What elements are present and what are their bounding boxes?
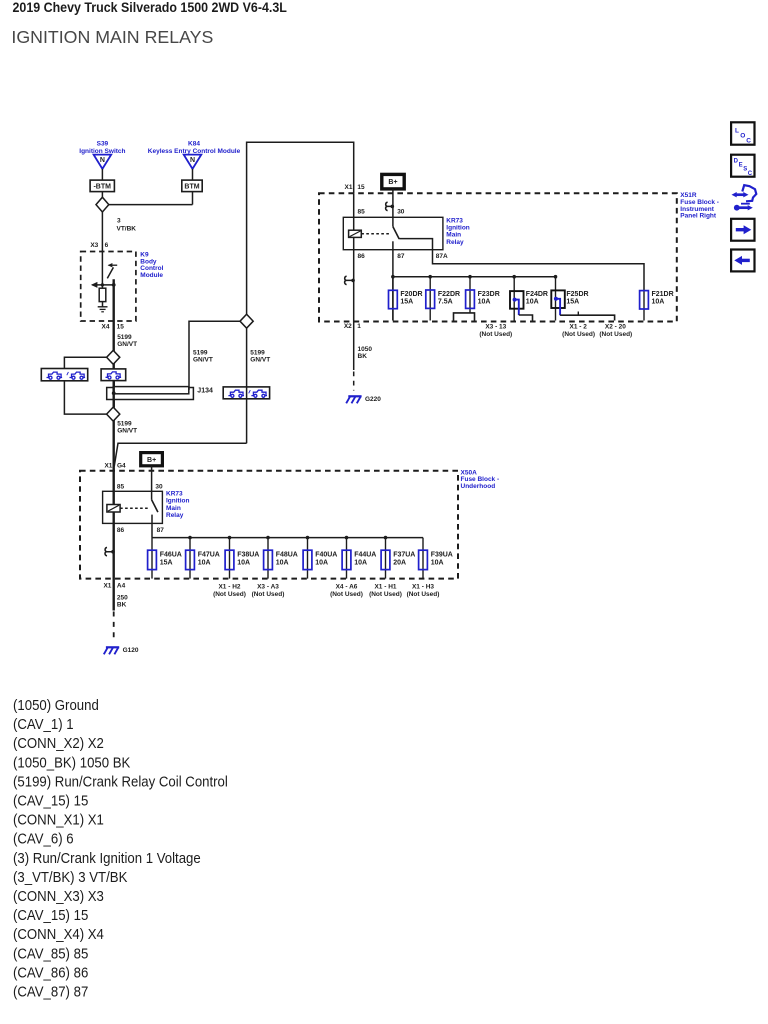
svg-text:IGNITION MAIN RELAYS: IGNITION MAIN RELAYS — [11, 27, 213, 47]
wire 1050 BK — [353, 322, 355, 391]
fuse F37UA — [381, 538, 415, 579]
module K9 BCM box — [81, 252, 136, 322]
node diamond C — [240, 314, 253, 328]
svg-text:F25DR: F25DR — [566, 291, 588, 298]
svg-text:(CAV_1) 1: (CAV_1) 1 — [13, 716, 74, 733]
svg-text:F40UA: F40UA — [315, 551, 337, 558]
svg-text:(Not Used): (Not Used) — [213, 591, 246, 598]
ground internal BCM — [98, 307, 108, 312]
relay actuation dashed link bottom — [120, 507, 148, 509]
svg-text:1050: 1050 — [358, 346, 373, 353]
relay actuation dashed link top — [361, 233, 389, 235]
svg-text:KR73: KR73 — [446, 217, 463, 224]
wire main through option box — [112, 381, 114, 387]
label X2-20 not used — [599, 323, 632, 338]
label G220 — [365, 396, 381, 403]
svg-text:(Not Used): (Not Used) — [369, 591, 402, 598]
label X3-13 not used — [479, 323, 512, 338]
svg-text:-BTM: -BTM — [93, 184, 111, 191]
svg-text:X1 - 2: X1 - 2 — [570, 323, 588, 330]
svg-text:GN/VT: GN/VT — [250, 357, 270, 364]
svg-text:F48UA: F48UA — [276, 551, 298, 558]
svg-text:15A: 15A — [566, 299, 579, 306]
label 250 BK — [117, 595, 128, 609]
svg-text:BK: BK — [358, 353, 368, 360]
ground G220 — [346, 396, 361, 403]
svg-text:6: 6 — [105, 242, 109, 249]
label 5199 GN/VT lower — [117, 421, 137, 435]
svg-text:VT/BK: VT/BK — [117, 225, 137, 232]
svg-text:(CAV_6) 6: (CAV_6) 6 — [13, 830, 74, 847]
junction dot B1 — [101, 283, 104, 286]
node diamond D — [107, 407, 120, 421]
junction dots bus bottom — [188, 536, 387, 540]
label 5199 GN/VT mid — [193, 350, 213, 364]
svg-text:(CAV_15) 15: (CAV_15) 15 — [13, 792, 89, 809]
svg-text:(Not Used): (Not Used) — [330, 591, 363, 598]
svg-text:E: E — [739, 163, 743, 169]
svg-text:15A: 15A — [400, 299, 413, 306]
svg-text:F23DR: F23DR — [478, 291, 500, 298]
svg-text:F24DR: F24DR — [526, 291, 548, 298]
svg-text:86: 86 — [117, 527, 125, 534]
button DESC — [731, 155, 754, 177]
splice J134 — [107, 381, 194, 407]
wire pin 87 drop top — [392, 241, 394, 320]
svg-text:X4: X4 — [102, 324, 110, 331]
svg-text:X3 - 13: X3 - 13 — [485, 323, 506, 330]
wire K84 down to junction — [192, 192, 194, 205]
svg-text:(CONN_X3) X3: (CONN_X3) X3 — [13, 887, 104, 904]
fuse F48UA — [264, 538, 298, 579]
wire 5199 main vertical — [112, 279, 114, 610]
svg-text:10A: 10A — [526, 299, 539, 306]
wire fuse bus bottom — [152, 537, 423, 539]
svg-text:L: L — [735, 128, 739, 135]
relay coil top — [349, 230, 362, 237]
svg-text:X1: X1 — [345, 184, 353, 191]
svg-text:(CONN_X4) X4: (CONN_X4) X4 — [13, 926, 104, 943]
svg-text:X1 - H2: X1 - H2 — [218, 584, 240, 591]
fuse F23DR — [466, 277, 500, 313]
wire K84 to BTM — [192, 169, 194, 180]
pin X1 15 top — [345, 184, 365, 191]
svg-text:N: N — [190, 157, 195, 164]
svg-text:(3) Run/Crank Ignition 1 Volta: (3) Run/Crank Ignition 1 Voltage — [13, 849, 201, 866]
wire -BTM to node — [101, 192, 103, 198]
fuse F44UA — [342, 538, 376, 579]
legend text list — [13, 696, 228, 999]
svg-text:(3_VT/BK) 3 VT/BK: (3_VT/BK) 3 VT/BK — [13, 868, 128, 885]
node diamond A — [96, 197, 109, 212]
option box two trucks left — [41, 369, 87, 381]
svg-text:N: N — [100, 157, 105, 164]
svg-text:30: 30 — [155, 483, 163, 490]
svg-text:F21DR: F21DR — [652, 291, 674, 298]
pin labels 86 87 bottom relay — [117, 527, 164, 534]
svg-text:(CONN_X2) X2: (CONN_X2) X2 — [13, 735, 104, 752]
triangle K84 — [184, 155, 202, 169]
button back arrow — [731, 250, 754, 272]
svg-text:F37UA: F37UA — [393, 551, 415, 558]
wire B+ to pin 30 bottom — [151, 466, 153, 500]
svg-text:S39: S39 — [97, 141, 109, 148]
arrow to other circuits — [91, 282, 98, 288]
svg-text:F20DR: F20DR — [400, 291, 422, 298]
wire right branch down — [246, 328, 248, 443]
svg-text:1: 1 — [357, 323, 361, 330]
svg-text:Ignition: Ignition — [446, 225, 469, 232]
fuse block X51R border — [319, 193, 677, 321]
svg-text:86: 86 — [358, 253, 366, 260]
label 1050 BK — [358, 346, 373, 360]
title text — [13, 0, 287, 15]
wire fuse bus top — [393, 276, 556, 278]
label G120 — [123, 647, 139, 654]
svg-text:3: 3 — [117, 218, 121, 225]
pin X1 G4 — [104, 463, 126, 470]
wire pin 87 drop bottom — [151, 515, 153, 538]
label KR73 top relay — [446, 217, 469, 246]
svg-text:X1: X1 — [104, 463, 112, 470]
svg-text:J134: J134 — [197, 387, 213, 394]
connector hook on main wire top block — [345, 276, 355, 285]
svg-text:85: 85 — [358, 208, 366, 215]
svg-text:2019 Chevy Truck Silverado 150: 2019 Chevy Truck Silverado 1500 2WD V6-4… — [13, 0, 287, 15]
fuse F25DR socket — [551, 277, 614, 321]
B+ terminal top — [382, 174, 404, 189]
connector hook on main wire bottom block — [105, 547, 115, 556]
svg-text:GN/VT: GN/VT — [117, 428, 137, 435]
relay switch blade top — [393, 227, 399, 239]
svg-text:X4 - A6: X4 - A6 — [336, 584, 358, 591]
switch inside BCM — [107, 263, 117, 278]
svg-text:Main: Main — [446, 232, 461, 239]
svg-text:15: 15 — [117, 324, 125, 331]
relay coil bottom — [107, 505, 120, 513]
terminal staple X3-13 — [454, 313, 475, 322]
svg-text:15A: 15A — [160, 559, 173, 566]
svg-text:F38UA: F38UA — [237, 551, 259, 558]
svg-text:(5199) Run/Crank Relay Coil Co: (5199) Run/Crank Relay Coil Control — [13, 773, 228, 790]
svg-text:10A: 10A — [354, 559, 367, 566]
B+ terminal bottom — [141, 453, 163, 466]
svg-text:X51R: X51R — [680, 192, 697, 199]
svg-text:Main: Main — [166, 505, 181, 512]
wire X1 15 main into relay — [353, 193, 355, 321]
svg-text:X1 - H3: X1 - H3 — [412, 584, 434, 591]
wire 250 BK dashed — [113, 612, 115, 640]
junction dots bus top — [391, 275, 557, 279]
pin X4 15 — [102, 324, 125, 331]
pin labels 86 87 87A — [358, 253, 449, 260]
svg-text:(Not Used): (Not Used) — [562, 331, 595, 338]
svg-text:87: 87 — [157, 527, 165, 534]
label X51R Fuse Block Instrument Panel Right — [680, 192, 719, 219]
relay switch blade bottom — [152, 500, 158, 512]
pin labels 85 30 top relay — [358, 208, 405, 215]
fuse F20DR — [389, 277, 423, 321]
fuse F40UA — [303, 538, 337, 579]
wire right branch bottom merge — [114, 443, 246, 466]
pin X2 1 — [344, 323, 361, 330]
wire node A to BCM — [101, 212, 103, 285]
svg-text:250: 250 — [117, 595, 128, 602]
wire feed to top block — [247, 142, 354, 314]
svg-text:85: 85 — [117, 483, 125, 490]
svg-text:87: 87 — [397, 253, 405, 260]
svg-text:BK: BK — [117, 602, 127, 609]
svg-text:X3 - A3: X3 - A3 — [257, 584, 279, 591]
svg-text:KR73: KR73 — [166, 491, 183, 498]
wire left branch loop — [64, 357, 106, 414]
svg-text:(CAV_15) 15: (CAV_15) 15 — [13, 907, 89, 924]
label X50A Fuse Block Underhood — [461, 469, 500, 490]
svg-text:Relay: Relay — [446, 239, 464, 246]
label X1-2 not used — [562, 323, 595, 338]
svg-text:10A: 10A — [652, 299, 665, 306]
svg-text:(Not Used): (Not Used) — [252, 591, 285, 598]
connector hook on B+ wire top — [386, 202, 395, 211]
svg-text:(Not Used): (Not Used) — [479, 331, 512, 338]
svg-text:Relay: Relay — [166, 512, 184, 519]
label wire 3 VT/BK — [117, 218, 137, 233]
svg-text:F47UA: F47UA — [198, 551, 220, 558]
heading text — [11, 27, 213, 47]
ground G120 — [104, 647, 119, 654]
svg-text:10A: 10A — [276, 559, 289, 566]
label K9 Body Control Module — [140, 252, 163, 279]
wire 87A path — [399, 239, 644, 291]
resistor R1 internal — [99, 285, 106, 307]
svg-text:(CAV_85) 85: (CAV_85) 85 — [13, 945, 89, 962]
label 5199 GN/VT right — [250, 350, 270, 364]
svg-text:10A: 10A — [431, 559, 444, 566]
svg-text:Ignition: Ignition — [166, 498, 189, 505]
label X1-H3 not used — [407, 584, 440, 599]
svg-text:10A: 10A — [478, 299, 491, 306]
svg-text:F39UA: F39UA — [431, 551, 453, 558]
button next arrow — [731, 219, 754, 241]
svg-text:Underhood: Underhood — [461, 483, 496, 490]
svg-text:7.5A: 7.5A — [438, 299, 453, 306]
junction dot B2 — [112, 283, 116, 287]
label X1-H2 not used — [213, 584, 246, 599]
wire B+ to pin 30 top — [392, 189, 394, 227]
fuse F24DR socket — [510, 277, 548, 322]
option box one truck — [101, 369, 126, 381]
fuse F47UA — [186, 538, 220, 579]
wire right branch from J134 up — [189, 321, 240, 390]
svg-text:87A: 87A — [436, 253, 448, 260]
svg-text:X1 - H1: X1 - H1 — [374, 584, 396, 591]
svg-text:GN/VT: GN/VT — [117, 341, 137, 348]
svg-text:GN/VT: GN/VT — [193, 357, 213, 364]
svg-text:B+: B+ — [388, 179, 397, 186]
wire junction horizontal — [109, 204, 193, 206]
fuse F46UA — [148, 538, 182, 579]
svg-text:F46UA: F46UA — [160, 551, 182, 558]
svg-text:G120: G120 — [123, 647, 139, 654]
fuse F22DR — [426, 277, 460, 321]
svg-text:X2: X2 — [344, 323, 352, 330]
svg-text:10A: 10A — [198, 559, 211, 566]
pin labels 85 30 bottom relay — [117, 483, 163, 490]
option box two trucks right — [223, 387, 269, 399]
svg-text:S: S — [743, 167, 747, 173]
svg-text:(1050_BK) 1050 BK: (1050_BK) 1050 BK — [13, 754, 131, 771]
connector K84 label — [148, 141, 241, 155]
svg-text:(Not Used): (Not Used) — [407, 591, 440, 598]
svg-text:10A: 10A — [315, 559, 328, 566]
label J134 — [197, 387, 213, 394]
node diamond B — [107, 350, 120, 364]
svg-text:(CONN_X1) X1: (CONN_X1) X1 — [13, 811, 104, 828]
svg-text:(CAV_86) 86: (CAV_86) 86 — [13, 964, 89, 981]
relay KR73 top outline — [343, 217, 443, 249]
svg-text:Panel Right: Panel Right — [680, 212, 717, 219]
svg-text:X2 - 20: X2 - 20 — [605, 323, 626, 330]
pin X1 A4 — [103, 583, 125, 590]
svg-text:K84: K84 — [188, 141, 200, 148]
svg-text:(1050) Ground: (1050) Ground — [13, 696, 99, 713]
svg-text:X1: X1 — [103, 583, 111, 590]
svg-text:B+: B+ — [147, 457, 156, 464]
svg-text:O: O — [740, 133, 745, 140]
fuse F38UA — [225, 538, 259, 579]
label X1-H1 not used — [369, 584, 402, 599]
svg-text:C: C — [748, 171, 753, 177]
relay KR73 bottom outline — [103, 491, 163, 523]
svg-text:A4: A4 — [117, 583, 126, 590]
label 5199 GN/VT upper — [117, 334, 137, 348]
fuse F39UA — [419, 538, 453, 579]
svg-text:30: 30 — [397, 208, 405, 215]
svg-text:C: C — [746, 138, 751, 145]
icon reroute arrows — [732, 185, 757, 210]
fuse F21DR — [640, 291, 674, 321]
svg-text:20A: 20A — [393, 559, 406, 566]
svg-text:F22DR: F22DR — [438, 291, 460, 298]
fuse block X50A border — [80, 471, 458, 579]
svg-text:X3: X3 — [90, 242, 98, 249]
svg-text:BTM: BTM — [184, 184, 199, 191]
svg-text:(Not Used): (Not Used) — [599, 331, 632, 338]
svg-text:G4: G4 — [117, 463, 126, 470]
label KR73 bottom relay — [166, 491, 189, 520]
label X3-A3 not used — [252, 584, 285, 599]
wire internal junction row — [92, 284, 113, 286]
triangle S39 — [94, 155, 112, 169]
connector S39 label — [79, 141, 125, 155]
svg-text:F44UA: F44UA — [354, 551, 376, 558]
terminal BTM — [182, 180, 202, 192]
svg-text:Module: Module — [140, 272, 163, 279]
wire S39 to -BTM — [101, 169, 103, 180]
svg-text:15: 15 — [357, 184, 365, 191]
svg-text:G220: G220 — [365, 396, 381, 403]
svg-text:10A: 10A — [237, 559, 250, 566]
pin X3 6 — [90, 242, 108, 249]
svg-text:(CAV_87) 87: (CAV_87) 87 — [13, 983, 89, 1000]
terminal -BTM — [90, 180, 114, 192]
button LOC — [731, 122, 754, 144]
label X4-A6 not used — [330, 584, 363, 599]
